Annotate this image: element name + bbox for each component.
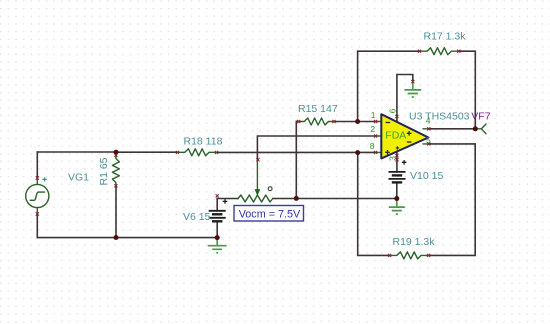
- wire R17 right leg: [459, 51, 476, 129]
- wire R17 left leg: [358, 51, 420, 121]
- wire V6 battery top lead: [216, 199, 218, 211]
- source VG1 sigmoid waveform: [30, 192, 44, 200]
- node Vocm value box: [234, 206, 304, 222]
- FDA pin5 green stub: [423, 143, 429, 145]
- resistor R17 zigzag: [420, 48, 459, 55]
- wire bottom-left horizontal: [37, 237, 217, 239]
- wire R1 top lead: [115, 152, 117, 155]
- svg-text:8: 8: [370, 141, 375, 151]
- wire top-left horizontal to R1: [37, 151, 116, 153]
- svg-text:R19 1.3k: R19 1.3k: [393, 236, 436, 248]
- battery V10 plus sign: [402, 160, 407, 165]
- svg-text:6: 6: [388, 108, 398, 113]
- pin mark FDA pin2: [374, 134, 377, 137]
- svg-text:VG1: VG1: [68, 172, 89, 184]
- source VG1 top terminal stub: [36, 178, 38, 184]
- FDA pin1 minus sign: [386, 122, 391, 124]
- ground at V6 battery: [208, 238, 227, 253]
- junction pin1 / R17 leg: [355, 119, 360, 124]
- pin mark R17 right: [457, 50, 460, 53]
- pin mark R18 left: [176, 151, 179, 154]
- pin mark FDA pin1: [374, 120, 377, 123]
- ground at V10 battery: [389, 199, 405, 215]
- svg-text:V6 15: V6 15: [183, 211, 211, 223]
- svg-text:5: 5: [426, 135, 431, 145]
- svg-text:R1 65: R1 65: [98, 157, 110, 185]
- svg-text:R15 147: R15 147: [298, 103, 338, 115]
- source VG1 circle: [26, 184, 49, 207]
- pin mark VG1 top: [36, 176, 39, 179]
- battery V10 plates: [389, 171, 406, 173]
- resistor R18 zigzag: [178, 149, 217, 156]
- pin mark FDA pin3: [395, 154, 398, 157]
- FDA pin4 green stub: [423, 128, 429, 130]
- FDA out- minus sign: [407, 141, 412, 143]
- potentiometer wiper arrowhead: [255, 190, 259, 195]
- wire R1 bottom lead: [115, 186, 117, 238]
- battery V6 plus sign: [223, 199, 228, 204]
- pin mark R15 left: [297, 120, 300, 123]
- junction V10 ground: [394, 196, 399, 201]
- pin mark R17 left: [418, 50, 421, 53]
- pin mark ground top: [411, 80, 414, 83]
- pin mark R15 right: [332, 120, 335, 123]
- COMPONENTS-GREEN: [26, 48, 486, 259]
- junction V6 ground: [215, 235, 220, 240]
- wire V10 bottom lead: [396, 182, 398, 198]
- pin mark FDA pin4: [427, 127, 430, 130]
- wire FDA pin4 output to VF7 node: [429, 128, 476, 130]
- wire FDA pin3 down to V10: [396, 152, 398, 172]
- resistor R1 zigzag (vertical): [112, 155, 119, 186]
- pin mark pot wiper: [256, 158, 259, 161]
- svg-text:Vocm = 7.5V: Vocm = 7.5V: [239, 209, 301, 221]
- FDA pin1 green stub: [376, 121, 381, 123]
- source VG1 bottom terminal stub: [36, 208, 38, 214]
- svg-text:U3 THS4503: U3 THS4503: [409, 111, 470, 123]
- source VG1 plus sign: [42, 177, 46, 181]
- pin mark VG1 bottom: [36, 212, 39, 215]
- pin mark R1 top: [114, 154, 117, 157]
- battery V6 plates: [209, 210, 226, 212]
- svg-text:3: 3: [388, 156, 398, 161]
- JUNCTION DOTS: [114, 119, 478, 240]
- svg-text:4: 4: [426, 116, 431, 126]
- svg-text:2: 2: [370, 124, 375, 134]
- pin mark R19 left: [388, 254, 391, 257]
- WIRES-DARK: [37, 51, 475, 255]
- wire R18 to FDA pin8: [217, 151, 376, 153]
- BATTERIES-BLACK: [209, 160, 407, 221]
- PIN X MARKS: [36, 50, 461, 257]
- svg-text:FDA: FDA: [385, 129, 406, 141]
- wire R19 left leg up to pin8 node: [358, 153, 390, 256]
- junction pin8 / R19 leg: [355, 150, 360, 155]
- wire V6 battery bottom lead: [216, 221, 218, 237]
- pin mark R19 right: [427, 254, 430, 257]
- pin mark V10 plus: [395, 158, 398, 161]
- wire pot wiper to corner to FDA pin2: [257, 136, 375, 160]
- FDA pin2 green stub: [376, 135, 381, 137]
- pin mark V6 plus / pot left: [216, 194, 219, 197]
- ground at FDA pin6: [404, 82, 421, 98]
- pin mark FDA pin8: [374, 151, 377, 154]
- FDA pin8 plus sign: [385, 150, 390, 155]
- potentiometer wiper arm: [256, 160, 258, 192]
- svg-text:R18 118: R18 118: [184, 135, 223, 147]
- wire R1 junction to R18: [116, 151, 178, 153]
- junction pot right / vocm rail: [294, 196, 299, 201]
- wire R15 right to pin1: [334, 121, 376, 123]
- junction R1 bottom: [114, 235, 119, 240]
- FDA out+ plus sign: [407, 131, 412, 136]
- junction R1 top: [114, 150, 119, 155]
- wire vocm rail right segment: [273, 198, 397, 200]
- wire R15 left corner stub: [296, 121, 299, 123]
- op-amp U3 FDA triangle: [381, 114, 428, 158]
- PIN NUMBERS: [370, 108, 431, 161]
- GROUNDS-GREEN: [208, 82, 421, 253]
- resistor R15 zigzag: [299, 118, 334, 125]
- pin mark R18 right: [215, 151, 218, 154]
- junction VF7 output node: [473, 126, 478, 131]
- svg-text:1: 1: [371, 110, 376, 120]
- potentiometer Vocm zigzag: [238, 195, 273, 202]
- wire VG1 bottom vertical: [36, 214, 38, 238]
- pin mark FDA pin6: [395, 115, 398, 118]
- probe VF7 symbol: [475, 124, 486, 134]
- pin mark R1 bottom: [114, 184, 117, 187]
- svg-text:VF7: VF7: [471, 110, 490, 122]
- svg-text:R17 1.3k: R17 1.3k: [424, 30, 467, 42]
- wire VG1 top vertical: [36, 152, 38, 178]
- wire vocm rail pot to V10 ground: [217, 198, 238, 200]
- svg-text:V10 15: V10 15: [410, 170, 443, 182]
- resistor R19 zigzag: [390, 252, 429, 259]
- FDA pin8 green stub: [376, 151, 381, 153]
- pin mark FDA pin5: [427, 142, 430, 145]
- wire FDA pin5 output down right leg: [429, 144, 476, 256]
- potentiometer o marker: [268, 187, 272, 191]
- wire R15 left corner vertical down to vocm rail: [295, 122, 297, 199]
- FDA small plus near pin3: [396, 146, 399, 149]
- wire FDA pin6 up and over to ground: [397, 75, 413, 122]
